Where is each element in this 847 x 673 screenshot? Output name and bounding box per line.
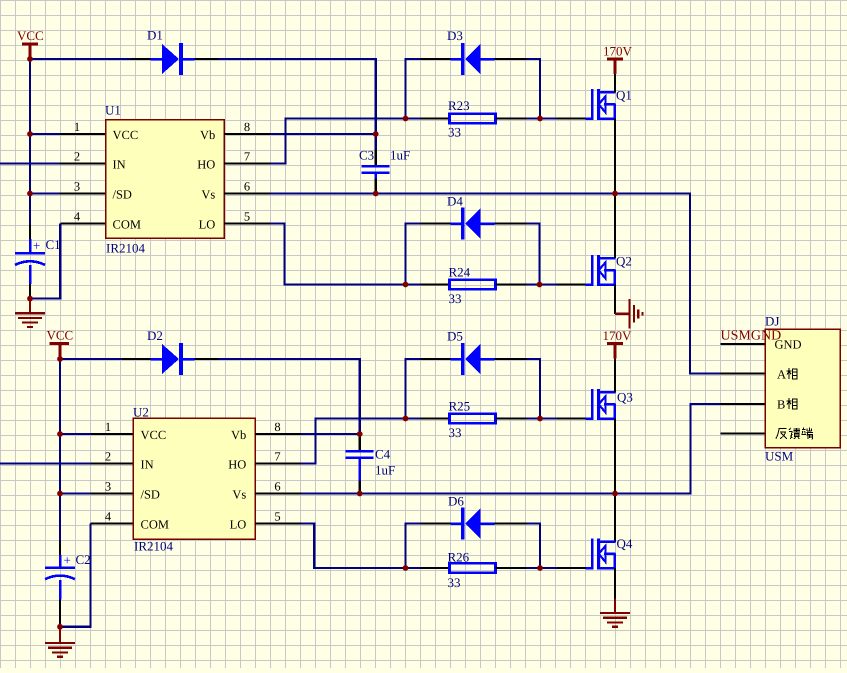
svg-text:U2: U2 (133, 405, 149, 420)
svg-text:R26: R26 (448, 550, 470, 565)
svg-text:USMGND: USMGND (721, 329, 782, 344)
svg-text:R24: R24 (449, 265, 471, 280)
svg-text:170V: 170V (603, 328, 633, 343)
svg-text:C2: C2 (76, 552, 91, 567)
svg-text:Q4: Q4 (617, 536, 633, 551)
svg-text:Q1: Q1 (616, 88, 632, 103)
svg-text:+: + (64, 553, 71, 568)
svg-text:LO: LO (199, 218, 216, 232)
svg-text:VCC: VCC (141, 428, 167, 442)
svg-text:2: 2 (105, 449, 111, 463)
svg-text:2: 2 (74, 149, 80, 163)
svg-text:/SD: /SD (113, 188, 132, 202)
svg-text:COM: COM (141, 518, 169, 532)
svg-text:IR2104: IR2104 (106, 241, 146, 256)
svg-text:VCC: VCC (113, 128, 139, 142)
svg-text:Q2: Q2 (616, 254, 632, 269)
svg-text:Vb: Vb (231, 428, 246, 442)
svg-text:1: 1 (105, 420, 111, 434)
svg-text:D1: D1 (147, 28, 163, 43)
svg-text:33: 33 (448, 125, 461, 140)
svg-text:4: 4 (105, 509, 112, 523)
svg-text:HO: HO (197, 158, 215, 172)
svg-text:5: 5 (244, 209, 250, 223)
svg-text:D2: D2 (147, 328, 163, 343)
svg-text:COM: COM (113, 218, 141, 232)
svg-text:A: A (777, 368, 786, 382)
svg-text:1: 1 (74, 120, 80, 134)
svg-text:3: 3 (74, 179, 80, 193)
svg-text:C4: C4 (375, 447, 391, 462)
svg-text:170V: 170V (603, 44, 633, 59)
svg-text:33: 33 (449, 425, 462, 440)
svg-text:1uF: 1uF (390, 148, 410, 163)
svg-text:HO: HO (228, 458, 246, 472)
svg-text:B: B (777, 398, 785, 412)
svg-text:6: 6 (274, 479, 280, 493)
svg-text:Vs: Vs (232, 488, 246, 502)
svg-text:LO: LO (230, 518, 247, 532)
svg-text:Vb: Vb (200, 128, 215, 142)
svg-text:D3: D3 (447, 28, 463, 43)
svg-text:R25: R25 (449, 399, 471, 414)
svg-text:R23: R23 (448, 98, 470, 113)
svg-text:33: 33 (448, 575, 461, 590)
svg-text:D5: D5 (447, 329, 463, 344)
svg-text:IN: IN (141, 458, 154, 472)
svg-text:VCC: VCC (47, 328, 74, 343)
svg-text:C3: C3 (359, 148, 374, 163)
svg-text:VCC: VCC (17, 28, 44, 43)
svg-text:USM: USM (765, 449, 794, 464)
svg-text:4: 4 (74, 209, 81, 223)
svg-text:+: + (33, 238, 40, 253)
svg-text:D6: D6 (448, 494, 464, 509)
svg-text:8: 8 (244, 120, 250, 134)
svg-text:5: 5 (274, 509, 280, 523)
svg-text:U1: U1 (105, 103, 121, 118)
svg-text:1uF: 1uF (375, 463, 395, 478)
svg-text:IR2104: IR2104 (134, 539, 174, 554)
svg-text:C1: C1 (46, 237, 61, 252)
svg-text:Vs: Vs (201, 188, 215, 202)
svg-text:8: 8 (274, 420, 280, 434)
svg-text:7: 7 (244, 149, 250, 163)
svg-text:D4: D4 (447, 194, 463, 209)
svg-text:33: 33 (449, 291, 462, 306)
svg-text:6: 6 (244, 179, 250, 193)
svg-text:DJ: DJ (765, 314, 779, 329)
svg-text:/SD: /SD (141, 488, 160, 502)
svg-text:GND: GND (775, 338, 802, 352)
svg-text:3: 3 (105, 479, 111, 493)
svg-text:Q3: Q3 (617, 390, 633, 405)
svg-text:IN: IN (113, 158, 126, 172)
svg-text:7: 7 (274, 449, 280, 463)
